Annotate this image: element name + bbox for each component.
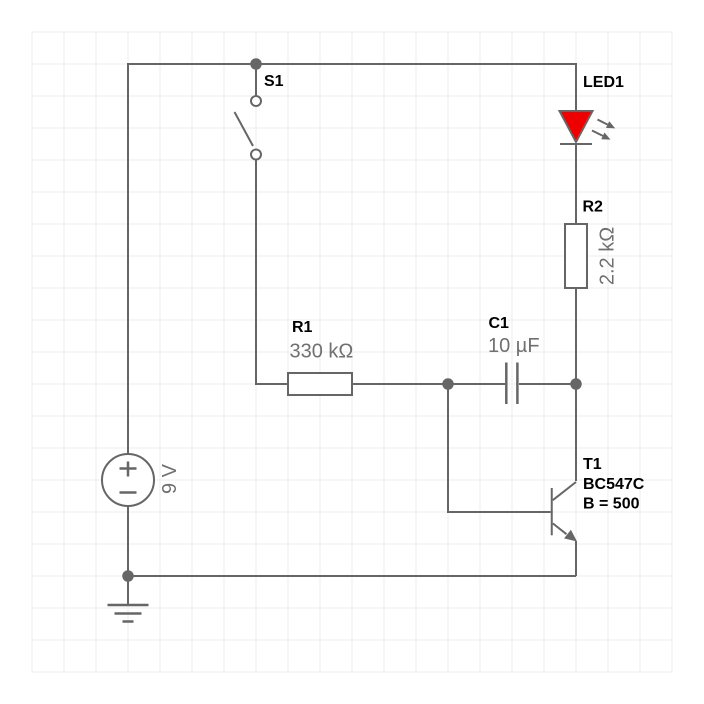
wire top rail with left drop to battery and right drop to LED1 anode <box>128 64 576 454</box>
junction node A: R1 / C1 / base <box>442 378 454 390</box>
wire R1 to C1 <box>353 383 505 385</box>
svg-text:330 kΩ: 330 kΩ <box>290 341 354 363</box>
junction node: switch / top rail <box>250 58 262 70</box>
switch S1 <box>235 96 262 160</box>
LED1 light arrows <box>592 120 615 140</box>
svg-text:10 µF: 10 µF <box>488 335 540 357</box>
svg-text:R1: R1 <box>292 319 313 336</box>
wire R2 to node B <box>575 289 577 384</box>
wire switch top stem <box>255 64 257 96</box>
battery V1 <box>102 454 154 506</box>
LED LED1 <box>560 111 593 144</box>
resistor R2 <box>565 224 587 288</box>
wire switch bottom stem to R1 <box>256 159 287 384</box>
svg-text:BC547C: BC547C <box>583 476 645 493</box>
transistor T1 <box>552 482 577 542</box>
ground <box>108 605 149 622</box>
svg-text:B = 500: B = 500 <box>583 496 640 513</box>
wire T1 emitter to bottom rail <box>575 541 577 576</box>
wire LED1 cathode to R2 <box>575 145 577 223</box>
svg-text:R2: R2 <box>583 199 604 216</box>
svg-text:S1: S1 <box>264 73 284 90</box>
svg-text:2.2 kΩ: 2.2 kΩ <box>597 227 619 285</box>
junction node: battery minus / bottom rail / ground <box>122 570 134 582</box>
wire bottom rail <box>128 575 576 577</box>
svg-text:LED1: LED1 <box>583 74 624 91</box>
svg-text:T1: T1 <box>583 456 602 473</box>
svg-text:C1: C1 <box>489 315 510 332</box>
junction node B: C1 / R2 / collector <box>570 378 582 390</box>
wire C1 to node B <box>519 383 576 385</box>
wire node A to T1 base <box>448 384 551 512</box>
wire node B to T1 collector <box>575 384 577 481</box>
resistor R1 <box>288 373 352 395</box>
svg-text:9 V: 9 V <box>159 463 181 494</box>
wire battery minus to ground <box>127 506 129 605</box>
capacitor C1 <box>506 363 517 405</box>
